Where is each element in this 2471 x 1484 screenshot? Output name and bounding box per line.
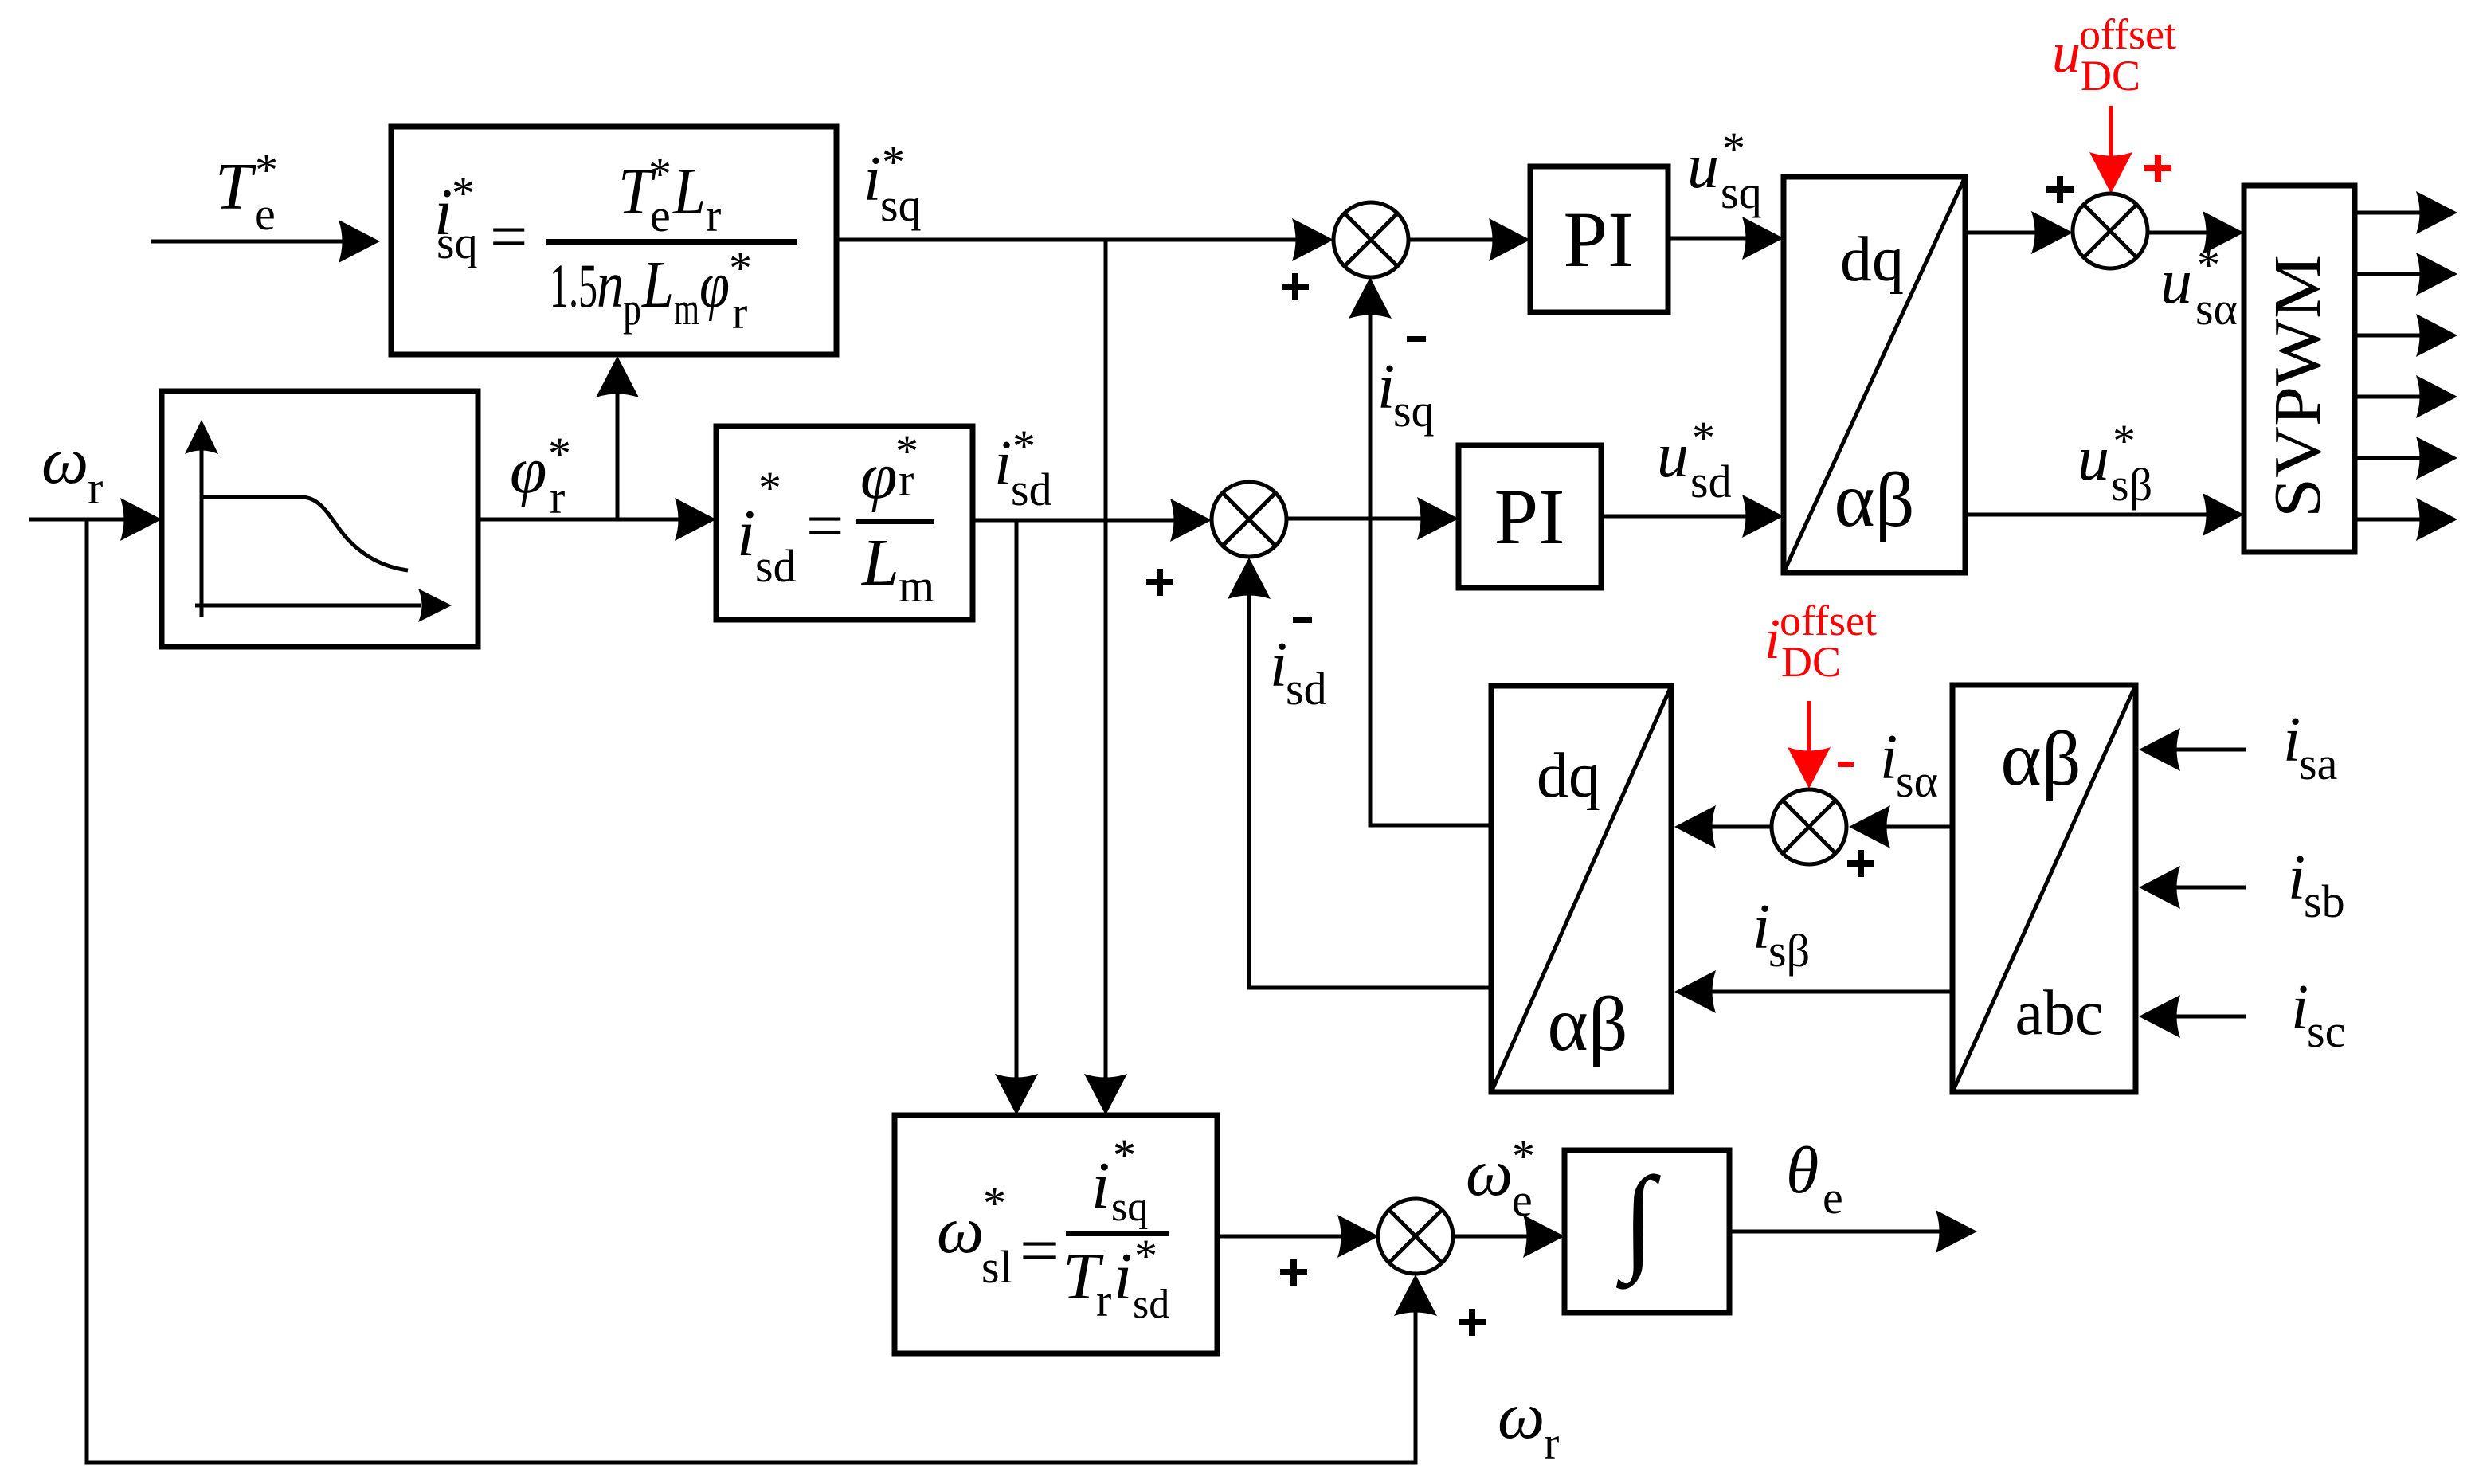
svg-text:r: r: [899, 454, 914, 506]
label red uDC offset: [2052, 10, 2176, 100]
arrowhead isa-alpha into J4: [1849, 805, 1890, 848]
svg-text:e: e: [1823, 1172, 1843, 1224]
wire wr speed input: [29, 518, 137, 522]
summing junction J3 (usa + uDCoffset): [2073, 194, 2148, 268]
svg-text:φ: φ: [699, 248, 730, 322]
arrowhead usa* into J3: [2031, 211, 2073, 254]
arrowhead isd* into J2: [1170, 499, 1212, 542]
svg-text:sd: sd: [755, 540, 797, 592]
arrowhead isd feedback into J2: [1228, 558, 1271, 599]
equation slip block fraction bar: [1066, 1231, 1169, 1236]
wire red uDC-offset injection: [2109, 106, 2113, 156]
minus sign at J2 feedback: [1293, 617, 1312, 623]
block alphabeta-to-abc transform: [1952, 685, 2136, 1092]
arrowhead red iDC-offset into J4: [1788, 747, 1831, 789]
svg-text:1.5: 1.5: [550, 251, 597, 320]
wire slip block to junction J5: [1217, 1235, 1353, 1239]
arrowhead we* into integrator: [1523, 1215, 1564, 1258]
label usd* voltage reference: [1657, 412, 1732, 507]
svg-text:DC: DC: [2081, 52, 2140, 100]
svg-text:sq: sq: [880, 179, 922, 231]
svg-text:sd: sd: [1011, 464, 1052, 515]
svg-text:sβ: sβ: [2111, 459, 2152, 511]
wire J3 to SVPWM (usa*): [2148, 231, 2219, 235]
arrowhead usb* into SVPWM: [2203, 493, 2244, 536]
label isa-alpha current: [1880, 722, 1938, 807]
svg-text:i: i: [1270, 630, 1287, 700]
svg-text:r: r: [1544, 1417, 1559, 1469]
flux-weakening graph y-axis: [185, 420, 218, 617]
wire isq* reference to junction J1: [836, 238, 1306, 242]
svg-text:DC: DC: [1781, 638, 1841, 686]
block PI controller d-axis U2: [1459, 445, 1601, 588]
svg-text:i: i: [1880, 722, 1897, 793]
svg-text:*: *: [983, 1177, 1006, 1229]
label isq* reference: [863, 136, 922, 231]
arrowhead phir* into isd block: [675, 498, 716, 541]
wire isd* reference to junction J2: [973, 519, 1187, 523]
equation isd block fraction bar: [856, 519, 934, 524]
svg-text:offset: offset: [2079, 10, 2176, 58]
svg-text:=: =: [806, 489, 844, 563]
svg-text:u: u: [2077, 424, 2109, 494]
arrowhead isd* branch into slip block: [995, 1074, 1038, 1115]
svg-text:e: e: [1512, 1174, 1533, 1226]
arrowhead J3 output into SVPWM: [2203, 211, 2244, 254]
summing junction J5 (wsl + wr): [1378, 1199, 1453, 1274]
svg-text:u: u: [1687, 131, 1719, 202]
svg-text:sβ: sβ: [1768, 925, 1810, 977]
equation isq block numerator TeLr: [618, 148, 721, 241]
wire red iDC-offset injection: [1807, 701, 1811, 752]
svg-text:φ: φ: [510, 433, 546, 507]
svg-text:φ: φ: [860, 439, 897, 513]
wire SVPWM gate output 4: [2355, 395, 2424, 399]
label usb* beta voltage: [2077, 415, 2152, 511]
arrowhead isq* branch into slip block: [1084, 1074, 1127, 1115]
arrowhead SVPWM gate output 4: [2416, 375, 2457, 418]
svg-text:sc: sc: [2307, 1005, 2345, 1057]
wire SVPWM gate output 5: [2355, 456, 2424, 460]
svg-text:ω: ω: [937, 1193, 984, 1267]
equation isq block LHS: [434, 167, 527, 274]
arrowhead isq feedback into J1: [1349, 277, 1392, 319]
svg-text:offset: offset: [1780, 597, 1877, 644]
wire wr feedback loop to junction J5: [87, 519, 1416, 1462]
svg-text:L: L: [672, 155, 706, 229]
summing junction J1 (isq*+ / isq-): [1333, 202, 1408, 277]
svg-text:sq: sq: [437, 217, 478, 268]
svg-text:n: n: [597, 248, 624, 322]
block isq-reference equation: [391, 127, 836, 354]
block integrator: [1564, 1150, 1729, 1313]
svg-text:sa: sa: [2299, 738, 2337, 789]
wire Te* input: [151, 240, 347, 244]
wire SVPWM gate output 1: [2355, 211, 2424, 215]
plus sign at J5 wr input: [1459, 1309, 1486, 1336]
label wr speed input: [41, 424, 103, 514]
label isb phase current: [2288, 843, 2345, 927]
block flux-weakening curve: [162, 391, 478, 647]
equation isd block numerator phir*: [860, 425, 918, 513]
plus sign at J3 red offset: [2144, 155, 2171, 182]
summing junction J2 (isd*+ / isd-): [1212, 482, 1286, 557]
svg-text:SVPWM: SVPWM: [2261, 255, 2335, 518]
svg-text:i: i: [1764, 607, 1780, 671]
svg-text:i: i: [2291, 973, 2308, 1043]
wire SVPWM gate output 2: [2355, 272, 2424, 276]
minus sign at J4 red offset: [1838, 762, 1854, 767]
svg-text:αβ: αβ: [2000, 716, 2081, 802]
arrowhead SVPWM gate output 3: [2416, 314, 2457, 357]
arrowhead isq* into J1: [1292, 218, 1333, 261]
wire isa phase input: [2168, 748, 2246, 752]
label isd* reference: [994, 421, 1052, 515]
svg-text:i: i: [737, 496, 755, 570]
svg-text:L: L: [861, 526, 899, 600]
equation isd block denominator Lm: [861, 526, 934, 612]
flux-weakening characteristic curve: [202, 497, 408, 570]
svg-text:m: m: [899, 560, 934, 612]
label red iDC offset: [1764, 597, 1877, 686]
block isd-reference equation: [716, 426, 973, 620]
svg-text:r: r: [88, 462, 103, 514]
wire usb* dq block to SVPWM: [1965, 513, 2219, 517]
arrowhead isa into abc block: [2139, 728, 2180, 771]
svg-text:i: i: [863, 144, 881, 214]
equation slip block numerator isq*: [1091, 1130, 1148, 1230]
wire isq* branch down to slip block: [1104, 240, 1108, 1082]
label wr feedback: [1498, 1379, 1559, 1469]
wire isd* branch down to slip block: [1015, 520, 1019, 1082]
equation isd block LHS: [737, 462, 844, 592]
wire dq block to junction J3: [1965, 231, 2049, 235]
svg-text:ω: ω: [1498, 1379, 1545, 1453]
svg-text:dq: dq: [1537, 741, 1600, 811]
wire J4 to dq2 block: [1705, 825, 1773, 829]
wire we* J5 to integrator: [1452, 1235, 1540, 1239]
arrowhead thetae output: [1936, 1210, 1977, 1253]
arrowhead slip output into J5: [1337, 1215, 1379, 1258]
wire isb phase input: [2168, 886, 2246, 890]
label usa* alpha voltage: [2160, 239, 2238, 335]
arrowhead isc into abc block: [2139, 995, 2180, 1038]
svg-text:sd: sd: [1133, 1282, 1169, 1327]
svg-text:sq: sq: [1393, 385, 1435, 437]
svg-text:i: i: [1091, 1149, 1110, 1223]
arrowhead SVPWM gate output 1: [2416, 191, 2457, 234]
wire usd* PI2 to dq block: [1601, 515, 1759, 519]
label isa phase current: [2283, 705, 2337, 789]
wire SVPWM gate output 6: [2355, 518, 2424, 522]
arrowhead SVPWM gate output 2: [2416, 253, 2457, 296]
equation slip block denominator Trisd*: [1063, 1230, 1169, 1327]
wire isc phase input: [2168, 1015, 2246, 1019]
svg-text:r: r: [1096, 1275, 1111, 1326]
wire thetae integrator output: [1729, 1230, 1945, 1234]
svg-text:αβ: αβ: [1834, 457, 1914, 543]
svg-text:dq: dq: [1840, 225, 1904, 295]
summing junction J4 (isa - iDCoffset): [1772, 789, 1846, 864]
svg-text:ω: ω: [41, 424, 88, 498]
arrowhead J4 output into dq2: [1674, 805, 1716, 848]
minus sign at J1 feedback: [1407, 336, 1426, 342]
label Te* torque reference: [215, 144, 278, 240]
wire isd feedback from dq2 up to J2: [1249, 591, 1491, 988]
block PI controller q-axis U1: [1530, 166, 1668, 312]
svg-text:sα: sα: [2195, 283, 2238, 335]
svg-text:L: L: [641, 248, 674, 322]
equation slip block LHS: [937, 1177, 1059, 1293]
svg-text:i: i: [2288, 843, 2305, 913]
arrowhead isb-beta into dq2: [1674, 970, 1716, 1013]
svg-text:m: m: [674, 283, 699, 335]
block SVPWM modulator: [2244, 186, 2355, 552]
wire J1 to PI1: [1408, 238, 1506, 242]
svg-text:r: r: [550, 472, 565, 523]
svg-text:p: p: [623, 283, 641, 335]
svg-text:r: r: [706, 190, 721, 241]
wire isq feedback from dq2 up to J1: [1370, 311, 1491, 825]
arrowhead phir* into isq block bottom: [596, 356, 639, 397]
arrowhead wr into flux block: [120, 498, 162, 541]
svg-text:u: u: [2160, 247, 2192, 317]
plus sign at J5 input: [1280, 1259, 1307, 1286]
svg-text:PI: PI: [1494, 472, 1565, 561]
svg-text:PI: PI: [1564, 195, 1635, 284]
svg-text:sα: sα: [1896, 755, 1938, 807]
svg-text:abc: abc: [2015, 978, 2103, 1048]
svg-text:sd: sd: [1690, 456, 1732, 507]
block dq-to-alphabeta transform: [1784, 177, 1965, 573]
plus sign at J2 input: [1146, 569, 1173, 596]
arrowhead isb into abc block: [2139, 866, 2180, 909]
svg-text:αβ: αβ: [1547, 981, 1627, 1067]
svg-text:i: i: [1377, 352, 1395, 422]
arrowhead Te* into isq block: [339, 220, 380, 263]
svg-text:∫: ∫: [1616, 1153, 1661, 1290]
svg-text:sb: sb: [2304, 875, 2345, 927]
svg-text:i: i: [2283, 705, 2301, 775]
label usq* voltage reference: [1687, 123, 1762, 218]
label thetae rotor angle: [1786, 1134, 1843, 1224]
svg-text:i: i: [1114, 1239, 1132, 1314]
arrowhead SVPWM gate output 6: [2416, 498, 2457, 541]
block dq feedback transform: [1491, 686, 1671, 1092]
equation isq block fraction bar: [546, 239, 797, 245]
arrowhead usq* into dq block: [1742, 217, 1784, 260]
arrowhead wr feedback into J5: [1394, 1275, 1437, 1316]
wire phir* branch up into isq block: [616, 388, 620, 519]
svg-text:r: r: [732, 287, 747, 339]
wire isa-alpha from abc block to J4: [1882, 825, 1952, 829]
plus sign at J3 input black: [2046, 176, 2074, 203]
label isb-beta current: [1752, 892, 1810, 977]
wire usq* PI1 to dq block: [1668, 237, 1759, 241]
label phir* flux reference: [510, 428, 571, 523]
wire phir* flux block to isd block: [478, 518, 691, 522]
flux-weakening graph x-axis: [195, 589, 452, 622]
wire isb-beta from abc block to dq2: [1705, 990, 1952, 994]
label isq feedback: [1377, 352, 1435, 437]
svg-text:sq: sq: [1721, 166, 1762, 218]
arrowhead J1 output into PI1: [1489, 218, 1530, 261]
arrowhead J2 output into PI2: [1417, 497, 1459, 540]
svg-text:sq: sq: [1111, 1184, 1148, 1230]
svg-text:θ: θ: [1786, 1134, 1819, 1208]
arrowhead SVPWM gate output 5: [2416, 437, 2457, 480]
svg-text:sl: sl: [981, 1241, 1012, 1293]
block slip-frequency equation: [895, 1115, 1217, 1353]
svg-text:*: *: [1113, 1130, 1136, 1181]
plus sign at J1 input: [1282, 273, 1309, 300]
equation isq block denominator: [550, 242, 752, 339]
label we* synchronous speed: [1466, 1130, 1535, 1226]
svg-text:u: u: [2052, 21, 2081, 84]
svg-text:ω: ω: [1466, 1136, 1513, 1210]
arrowhead usd* into dq block: [1742, 495, 1784, 538]
wire J2 to PI2: [1286, 517, 1434, 521]
svg-text:e: e: [255, 188, 276, 240]
svg-text:u: u: [1657, 421, 1689, 491]
svg-text:T: T: [215, 150, 256, 224]
label isd feedback: [1270, 630, 1327, 715]
svg-text:sd: sd: [1286, 663, 1327, 715]
label isc phase current: [2291, 973, 2345, 1057]
svg-text:*: *: [758, 462, 781, 514]
svg-text:=: =: [490, 200, 527, 274]
wire SVPWM gate output 3: [2355, 334, 2424, 338]
arrowhead red uDC-offset into J3: [2089, 152, 2132, 194]
svg-text:i: i: [994, 429, 1012, 499]
plus sign at J4 input black: [1847, 850, 1874, 877]
svg-text:*: *: [452, 167, 475, 219]
svg-text:i: i: [1752, 892, 1770, 962]
svg-text:*: *: [1134, 1230, 1157, 1282]
svg-text:=: =: [1020, 1214, 1059, 1288]
svg-text:e: e: [650, 190, 671, 241]
